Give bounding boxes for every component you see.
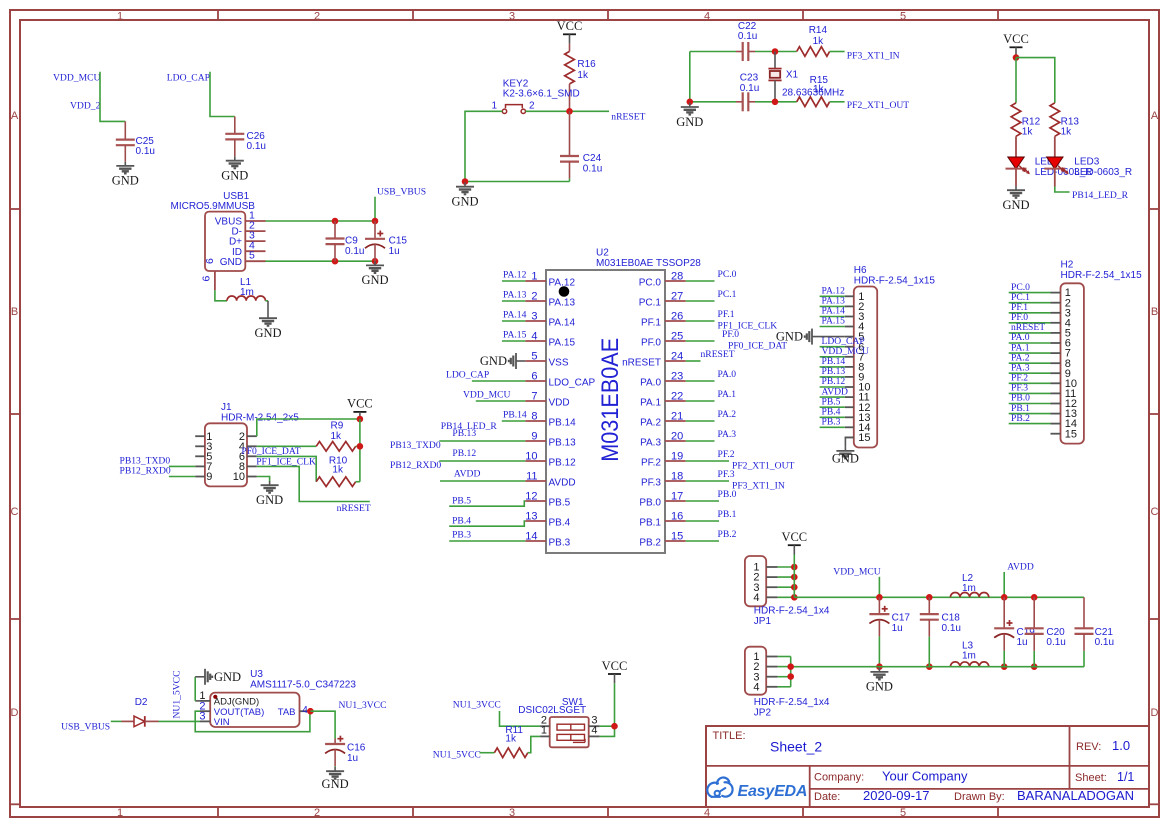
U2 pin 20 PA.3: [665, 440, 686, 442]
U2 pin 3 PA.14: [525, 320, 546, 322]
svg-text:C18: C18: [942, 613, 961, 624]
U2 pin 26 PF.1: [665, 320, 686, 322]
H6 pin 4: [845, 326, 854, 328]
capacitor C23 0.1u: [736, 101, 743, 103]
svg-text:PF.3: PF.3: [718, 469, 735, 480]
svg-text:0.1u: 0.1u: [136, 146, 155, 157]
wire LED3 to PB14_LED_R: [1055, 187, 1070, 193]
wire J1 pin7 PB13_TXD0: [169, 465, 195, 467]
inductor L3 1m: [950, 662, 988, 667]
U2 pin 21 PA.2: [665, 420, 686, 422]
svg-text:GND: GND: [322, 777, 349, 791]
svg-text:C: C: [11, 506, 19, 518]
svg-text:PA.14: PA.14: [503, 309, 527, 320]
svg-text:ADJ(GND): ADJ(GND): [214, 697, 259, 708]
wire JP2 bus: [790, 657, 792, 687]
svg-text:4: 4: [753, 592, 759, 604]
svg-text:0.1u: 0.1u: [1095, 637, 1114, 648]
svg-text:H2: H2: [1061, 259, 1074, 270]
H6 pin 8: [845, 366, 854, 368]
svg-text:26: 26: [671, 311, 683, 323]
H6 pin 7: [845, 356, 854, 358]
wire PA.12: [502, 280, 525, 282]
svg-text:1k: 1k: [332, 465, 344, 476]
svg-text:16: 16: [671, 511, 683, 523]
wire nRESET (U2 right): [686, 360, 701, 362]
svg-text:15: 15: [858, 432, 870, 444]
svg-text:C16: C16: [347, 743, 366, 754]
wire PB.12 (U2): [439, 460, 525, 462]
H2 pin 11: [1051, 392, 1061, 394]
EasyEDA logo: [707, 778, 732, 797]
svg-text:17: 17: [671, 491, 683, 503]
svg-text:PB.12: PB.12: [452, 448, 476, 459]
svg-text:AVDD: AVDD: [1007, 561, 1034, 572]
svg-text:LDO_CAP: LDO_CAP: [446, 369, 489, 380]
H2 pin 3: [1051, 312, 1061, 314]
wire PB.3 (H6): [820, 426, 845, 428]
svg-text:5: 5: [531, 351, 537, 363]
svg-text:VCC: VCC: [1003, 32, 1029, 46]
connector JP2 HDR-F-2.54_1x4: [745, 647, 766, 695]
svg-text:3: 3: [531, 311, 537, 323]
wire PF.0 (U2 right): [686, 340, 715, 342]
svg-text:PB.12: PB.12: [549, 458, 577, 469]
U2 pin 4 PA.15: [525, 340, 546, 342]
resistor R9 1k: [316, 442, 356, 452]
svg-text:1k: 1k: [1022, 126, 1034, 137]
ground (U2 VSS): [516, 360, 525, 362]
svg-text:HDR-M-2.54_2x5: HDR-M-2.54_2x5: [221, 413, 299, 424]
wire to USB_VBUS flag: [374, 197, 376, 221]
svg-text:GND: GND: [221, 169, 248, 183]
wire PC.0 (U2 right): [686, 280, 715, 282]
H6 pin 11: [845, 396, 854, 398]
svg-text:PA.12: PA.12: [503, 269, 527, 280]
wire USB GND rail: [266, 260, 376, 262]
svg-text:PF.0: PF.0: [722, 329, 739, 340]
H2 pin 12: [1051, 403, 1061, 405]
H2 pin 13: [1051, 413, 1061, 415]
resistor R16 1k: [569, 44, 571, 52]
wire PF.2 (H2): [1009, 382, 1051, 384]
svg-text:USB_VBUS: USB_VBUS: [377, 187, 426, 198]
svg-text:C20: C20: [1046, 627, 1065, 638]
svg-text:HDR-F-2.54_1x4: HDR-F-2.54_1x4: [754, 697, 830, 708]
svg-text:8: 8: [531, 411, 537, 423]
wire PB.1 (U2 right): [686, 520, 719, 522]
junction X1 bottom: [772, 99, 779, 106]
svg-text:Sheet_2: Sheet_2: [770, 739, 822, 755]
wire L1 to GND: [265, 300, 268, 302]
pin 6: [247, 455, 257, 457]
U2 pin 22 PA.1: [665, 400, 686, 402]
svg-text:23: 23: [671, 371, 683, 383]
diode D2: [122, 720, 135, 722]
pin 1 marker dot: [559, 286, 570, 297]
U2 pin 19 PF.2: [665, 460, 686, 462]
U2 pin 7 VDD: [525, 400, 546, 402]
svg-text:GND: GND: [480, 354, 507, 368]
capacitor C24 0.1u: [569, 111, 571, 156]
svg-text:DSIC02LSGET: DSIC02LSGET: [518, 705, 586, 716]
svg-text:BARANALADOGAN: BARANALADOGAN: [1017, 788, 1134, 803]
U2 pin 23 PA.0: [665, 380, 686, 382]
svg-text:6: 6: [201, 276, 213, 282]
svg-text:PB.4: PB.4: [452, 515, 471, 526]
svg-text:A: A: [1151, 110, 1159, 122]
svg-text:PC.1: PC.1: [718, 289, 737, 300]
wire PC.0 (H2): [1009, 292, 1051, 294]
wire J1 pin9 PB12_RXD0: [169, 476, 195, 478]
wire LDO_CAP (H6): [820, 346, 845, 348]
svg-text:PB.14: PB.14: [503, 409, 527, 420]
svg-text:1: 1: [117, 10, 123, 22]
svg-text:1u: 1u: [1017, 637, 1028, 648]
svg-text:2020-09-17: 2020-09-17: [863, 788, 930, 803]
U2 pin 1 PA.12: [525, 280, 546, 282]
svg-text:1u: 1u: [347, 753, 358, 764]
U2 pin 27 PC.1: [665, 300, 686, 302]
wire TAB to NU1_3VCC / C16: [310, 711, 335, 738]
U2 pin 13 PB.4: [525, 520, 546, 522]
JP2 pin 4: [766, 686, 777, 688]
wire PA.12 (H6): [820, 295, 845, 297]
svg-text:NU1_3VCC: NU1_3VCC: [453, 700, 501, 711]
pin 10: [247, 476, 257, 478]
ground (VDD filter): [876, 663, 883, 670]
wire crystal left vertical: [689, 52, 691, 102]
pin 5 GND: [245, 260, 265, 262]
svg-text:USB_VBUS: USB_VBUS: [61, 722, 110, 733]
wire PB.14 (H6): [820, 366, 845, 368]
inductor L1 1m: [227, 296, 265, 301]
svg-text:PA.2: PA.2: [640, 418, 661, 429]
svg-text:1k: 1k: [577, 70, 589, 81]
wire JP2 pin3 to bus: [778, 676, 791, 678]
resistor R14 1k: [797, 47, 830, 57]
wire PA.3 (U2 right): [686, 440, 715, 442]
wire KEY2 left to GND rail: [465, 111, 570, 181]
svg-text:1/1: 1/1: [1117, 770, 1134, 784]
svg-text:GND: GND: [220, 257, 242, 268]
pin 4: [247, 445, 257, 447]
wire USB_VBUS to D2: [111, 720, 122, 722]
wire PA.1 (H2): [1009, 352, 1051, 354]
svg-text:1: 1: [491, 100, 497, 111]
svg-text:1k: 1k: [813, 36, 825, 47]
svg-text:PB.3: PB.3: [452, 529, 471, 540]
svg-text:GND: GND: [676, 115, 703, 129]
wire PB.3 (U2): [449, 540, 525, 542]
wire AVDD (H6): [820, 396, 845, 398]
svg-text:PB.4: PB.4: [549, 518, 571, 529]
svg-text:3: 3: [509, 807, 515, 819]
svg-text:EasyEDA: EasyEDA: [738, 783, 808, 800]
svg-text:PC.0: PC.0: [639, 278, 662, 289]
svg-text:D2: D2: [135, 697, 148, 708]
svg-text:M031EB0AE TSSOP28: M031EB0AE TSSOP28: [596, 258, 701, 269]
ground (LED1): [1015, 186, 1017, 190]
svg-text:1u: 1u: [389, 246, 400, 257]
pin 6 shield: [214, 271, 216, 290]
svg-text:PA.2: PA.2: [718, 409, 737, 420]
svg-text:PA.15: PA.15: [822, 316, 846, 327]
svg-text:Your Company: Your Company: [882, 769, 968, 784]
H6 pin 1: [845, 295, 854, 297]
svg-text:10: 10: [233, 471, 245, 483]
U2 pin 25 PF.0: [665, 340, 686, 342]
junction VCC LEDs: [1013, 54, 1020, 61]
svg-text:GND: GND: [1002, 198, 1029, 212]
H2 pin 9: [1051, 372, 1061, 374]
svg-text:12: 12: [525, 491, 537, 503]
wire PB.14 (U2): [502, 420, 526, 422]
svg-text:PF2_XT1_OUT: PF2_XT1_OUT: [847, 100, 910, 111]
svg-text:PA.1: PA.1: [718, 389, 737, 400]
wire KEY2 right to nRESET node: [526, 110, 610, 112]
ground (H6 pin5): [812, 336, 845, 338]
svg-text:PB.2: PB.2: [1011, 413, 1030, 424]
U2 pin 5 VSS: [525, 360, 546, 362]
svg-text:0.1u: 0.1u: [247, 141, 266, 152]
svg-text:0.1u: 0.1u: [942, 623, 961, 634]
svg-text:MICRO5.9MMUSB: MICRO5.9MMUSB: [171, 201, 256, 212]
wire LDO_CAP to C26: [210, 72, 235, 117]
svg-text:21: 21: [671, 411, 683, 423]
svg-text:PB.1: PB.1: [718, 509, 737, 520]
H6 pin 9: [845, 376, 854, 378]
H2 pin 7: [1051, 352, 1061, 354]
JP1 pin 3: [766, 586, 777, 588]
svg-text:PF.0: PF.0: [641, 338, 661, 349]
U2 pin 24 nRESET: [665, 360, 686, 362]
svg-text:VCC: VCC: [347, 397, 373, 411]
svg-text:VSS: VSS: [549, 358, 569, 369]
wire U3 pin1 to GND: [195, 700, 200, 702]
svg-text:PF3_XT1_IN: PF3_XT1_IN: [732, 481, 785, 492]
pin 5: [195, 455, 205, 457]
U3 pin 3 VIN: [200, 720, 210, 722]
pin 7: [195, 465, 205, 467]
capacitor C21 0.1u: [1083, 597, 1085, 628]
wire PA.2 (H2): [1009, 362, 1051, 364]
ground below C26: [234, 157, 236, 161]
svg-text:1m: 1m: [962, 651, 976, 662]
svg-text:PF2_XT1_OUT: PF2_XT1_OUT: [732, 461, 795, 472]
U3 pin 2 VOUT(TAB): [200, 710, 210, 712]
svg-text:3: 3: [199, 711, 205, 723]
svg-text:1: 1: [531, 271, 537, 283]
wire VOUT loop: [195, 711, 310, 732]
svg-text:1u: 1u: [892, 623, 903, 634]
svg-text:VDD_MCU: VDD_MCU: [833, 566, 881, 577]
svg-text:AMS1117-5.0_C347223: AMS1117-5.0_C347223: [250, 680, 356, 691]
wire PB.4 (U2): [449, 521, 525, 526]
capacitor C25: [124, 121, 126, 139]
U2 pin 16 PB.1: [665, 520, 686, 522]
svg-text:LDO_CAP: LDO_CAP: [549, 378, 596, 389]
wire PF.0 (H2): [1009, 322, 1051, 324]
SW1 pin 1: [540, 735, 550, 737]
ground (C16): [334, 767, 336, 771]
svg-text:K2-3.6×6.1_SMD: K2-3.6×6.1_SMD: [503, 88, 580, 99]
svg-text:PA.15: PA.15: [503, 329, 527, 340]
svg-text:0.1u: 0.1u: [1046, 637, 1065, 648]
svg-text:C9: C9: [345, 236, 358, 247]
svg-text:7: 7: [531, 391, 537, 403]
svg-text:LDO_CAP: LDO_CAP: [167, 73, 210, 84]
svg-text:0.1u: 0.1u: [345, 246, 364, 257]
svg-text:22: 22: [671, 391, 683, 403]
H6 pin 5: [845, 336, 854, 338]
svg-text:24: 24: [671, 351, 683, 363]
svg-text:C24: C24: [583, 153, 602, 164]
svg-text:JP1: JP1: [754, 616, 772, 627]
svg-text:A: A: [11, 110, 19, 122]
svg-text:C21: C21: [1095, 627, 1114, 638]
U3 pin 4 TAB: [300, 710, 311, 712]
svg-text:PF.1: PF.1: [641, 318, 661, 329]
wire AVDD (U2): [440, 480, 525, 482]
svg-text:PA.14: PA.14: [549, 318, 576, 329]
H6 pin 2: [845, 305, 854, 307]
svg-text:PC.0: PC.0: [718, 269, 737, 280]
wire PB.4 (H6): [820, 416, 845, 418]
H2 pin 6: [1051, 342, 1061, 344]
H2 pin 8: [1051, 362, 1061, 364]
wire PA.0 (U2 right): [686, 380, 715, 382]
svg-text:PB.1: PB.1: [639, 518, 661, 529]
svg-text:nRESET: nRESET: [611, 112, 645, 123]
wire SW1 pin3/pin4 to VCC: [600, 725, 615, 727]
wire VDD_MCU to C25: [100, 72, 125, 122]
LED LED3 LED-0603_R: [1054, 136, 1056, 157]
pin 9: [195, 476, 205, 478]
svg-text:4: 4: [591, 725, 597, 737]
wire PF.1 (U2 right): [686, 320, 715, 322]
pin 8: [247, 465, 257, 467]
svg-text:PA.13: PA.13: [549, 298, 576, 309]
wire J1 pin2 to VCC: [257, 419, 360, 436]
connector JP1 HDR-F-2.54_1x4: [745, 556, 766, 606]
H6 pin 10: [845, 386, 854, 388]
svg-text:1.0: 1.0: [1112, 738, 1130, 753]
capacitor C20 0.1u: [1031, 594, 1038, 601]
svg-text:PB12_RXD0: PB12_RXD0: [120, 465, 171, 476]
ground (U3 ADJ): [204, 669, 206, 685]
svg-text:VIN: VIN: [214, 717, 230, 728]
wire JP2 pin1 to bus: [778, 656, 791, 658]
svg-text:PB.2: PB.2: [639, 538, 661, 549]
wire J1 pin4 to R9: [257, 445, 316, 447]
H6 pin 14: [845, 426, 854, 428]
svg-text:NU1_5VCC: NU1_5VCC: [433, 750, 481, 761]
svg-text:C: C: [1151, 506, 1159, 518]
svg-text:M031EB0AE: M031EB0AE: [597, 338, 624, 462]
svg-text:1: 1: [541, 725, 547, 737]
ground (KEY2): [464, 183, 466, 187]
svg-text:4: 4: [704, 10, 710, 22]
pin 2 D-: [245, 230, 265, 232]
U2 pin 17 PB.0: [665, 500, 686, 502]
svg-text:Company:: Company:: [814, 772, 864, 784]
svg-text:NU1_3VCC: NU1_3VCC: [339, 700, 387, 711]
svg-text:PF.2: PF.2: [718, 449, 735, 460]
ground below C25: [124, 162, 126, 166]
wire PA.15: [502, 340, 525, 342]
svg-text:C26: C26: [247, 131, 266, 142]
svg-text:Date:: Date:: [814, 791, 840, 803]
svg-text:TITLE:: TITLE:: [713, 730, 746, 742]
wire PB.1 (H2): [1009, 413, 1051, 415]
svg-text:VCC: VCC: [602, 659, 628, 673]
svg-text:REV:: REV:: [1076, 741, 1101, 753]
junction VCC J1: [357, 416, 364, 423]
svg-text:PB.0: PB.0: [718, 489, 737, 500]
svg-text:VDD_2: VDD_2: [70, 100, 101, 111]
svg-text:20: 20: [671, 431, 683, 443]
svg-text:R14: R14: [809, 25, 828, 36]
svg-text:1k: 1k: [813, 84, 825, 95]
wire PB.0 (U2 right): [686, 500, 719, 502]
svg-text:10: 10: [525, 451, 537, 463]
svg-text:11: 11: [526, 471, 537, 483]
U2 pin 28 PC.0: [665, 280, 686, 282]
wire PB.0 (H2): [1009, 403, 1051, 405]
wire VDD rail: [794, 596, 1084, 598]
SW1 pin 3: [589, 725, 600, 727]
svg-text:1k: 1k: [505, 734, 517, 745]
svg-text:14: 14: [525, 531, 537, 543]
svg-text:Sheet:: Sheet:: [1075, 772, 1107, 784]
capacitor C18 0.1u: [926, 594, 933, 601]
U2 pin 14 PB.3: [525, 540, 546, 542]
svg-text:PB.5: PB.5: [452, 495, 471, 506]
svg-text:PB14_LED_R: PB14_LED_R: [1072, 190, 1129, 201]
wire H6 pin15 to GND: [844, 436, 847, 438]
svg-text:2: 2: [314, 807, 320, 819]
svg-text:HDR-F-2.54_1x4: HDR-F-2.54_1x4: [754, 606, 830, 617]
capacitor C17 1u polarized: [878, 597, 880, 614]
capacitor C19 1u polarized: [1003, 597, 1005, 628]
svg-text:PC.1: PC.1: [639, 298, 662, 309]
svg-text:9: 9: [531, 431, 537, 443]
svg-text:18: 18: [671, 471, 683, 483]
svg-text:C22: C22: [738, 21, 757, 32]
svg-text:9: 9: [206, 471, 212, 483]
svg-text:GND: GND: [361, 273, 388, 287]
svg-text:VDD_MCU: VDD_MCU: [463, 389, 511, 400]
JP1 pin 2: [766, 576, 777, 578]
svg-text:VCC: VCC: [781, 530, 807, 544]
title block: [706, 726, 1149, 807]
svg-text:PB.5: PB.5: [549, 498, 571, 509]
wire crystal top rail: [690, 51, 736, 53]
pin 4 ID: [245, 250, 265, 252]
wire NU1_3VCC to SW1 pin2: [500, 711, 541, 726]
wire PA.15 (H6): [820, 326, 845, 328]
svg-text:6: 6: [204, 258, 216, 264]
svg-text:15: 15: [1065, 428, 1077, 440]
svg-text:PB.14: PB.14: [549, 418, 577, 429]
JP2 pin 1: [766, 656, 777, 658]
capacitor C26: [234, 117, 236, 134]
wire JP1 pin1 to bus: [778, 566, 795, 568]
wire PB.13 (U2): [439, 440, 525, 442]
H2 pin 1: [1051, 292, 1061, 294]
capacitor C22 0.1u: [736, 51, 743, 53]
